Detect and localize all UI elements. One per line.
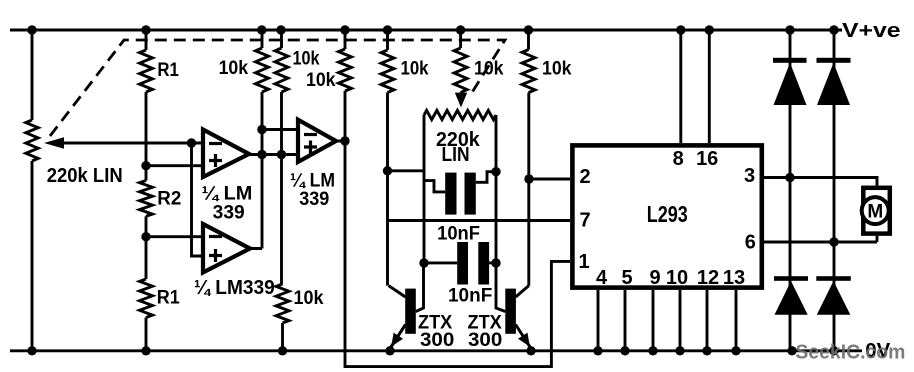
svg-text:3: 3: [744, 165, 755, 187]
svg-text:M: M: [867, 201, 883, 222]
svg-text:10: 10: [666, 267, 688, 289]
svg-text:6: 6: [745, 232, 756, 254]
svg-text:10k: 10k: [219, 58, 249, 79]
svg-text:10k: 10k: [294, 288, 324, 309]
svg-text:13: 13: [723, 267, 745, 289]
svg-text:10nF: 10nF: [448, 285, 492, 306]
svg-text:9: 9: [649, 267, 660, 289]
svg-text:LIN: LIN: [442, 144, 470, 166]
svg-text:16: 16: [696, 148, 718, 170]
svg-text:10nF: 10nF: [437, 224, 480, 245]
svg-text:7: 7: [579, 210, 590, 232]
svg-text:R2: R2: [157, 189, 181, 210]
svg-text:220k LIN: 220k LIN: [47, 165, 123, 187]
svg-text:¼ LM: ¼ LM: [290, 170, 335, 191]
svg-text:¼ LM: ¼ LM: [202, 184, 253, 205]
svg-text:8: 8: [673, 148, 684, 170]
svg-text:300: 300: [468, 330, 502, 351]
svg-text:10k: 10k: [293, 48, 320, 69]
svg-text:10k: 10k: [401, 59, 429, 80]
svg-text:300: 300: [420, 330, 454, 351]
svg-text:339: 339: [213, 202, 245, 223]
svg-text:2: 2: [579, 166, 590, 188]
svg-text:10k: 10k: [474, 59, 504, 80]
svg-text:¼ LM339: ¼ LM339: [194, 277, 275, 299]
svg-text:SeekIC.com: SeekIC.com: [795, 342, 905, 364]
svg-text:1: 1: [578, 251, 589, 273]
svg-text:10k: 10k: [542, 59, 572, 80]
svg-text:5: 5: [621, 267, 632, 289]
svg-text:10k: 10k: [306, 70, 336, 91]
svg-text:4: 4: [596, 267, 608, 289]
svg-text:L293: L293: [647, 201, 688, 227]
svg-text:12: 12: [697, 267, 719, 289]
svg-text:R1: R1: [157, 60, 179, 81]
svg-text:V+ve: V+ve: [842, 20, 901, 42]
svg-text:R1: R1: [157, 288, 180, 309]
svg-text:339: 339: [299, 189, 329, 210]
